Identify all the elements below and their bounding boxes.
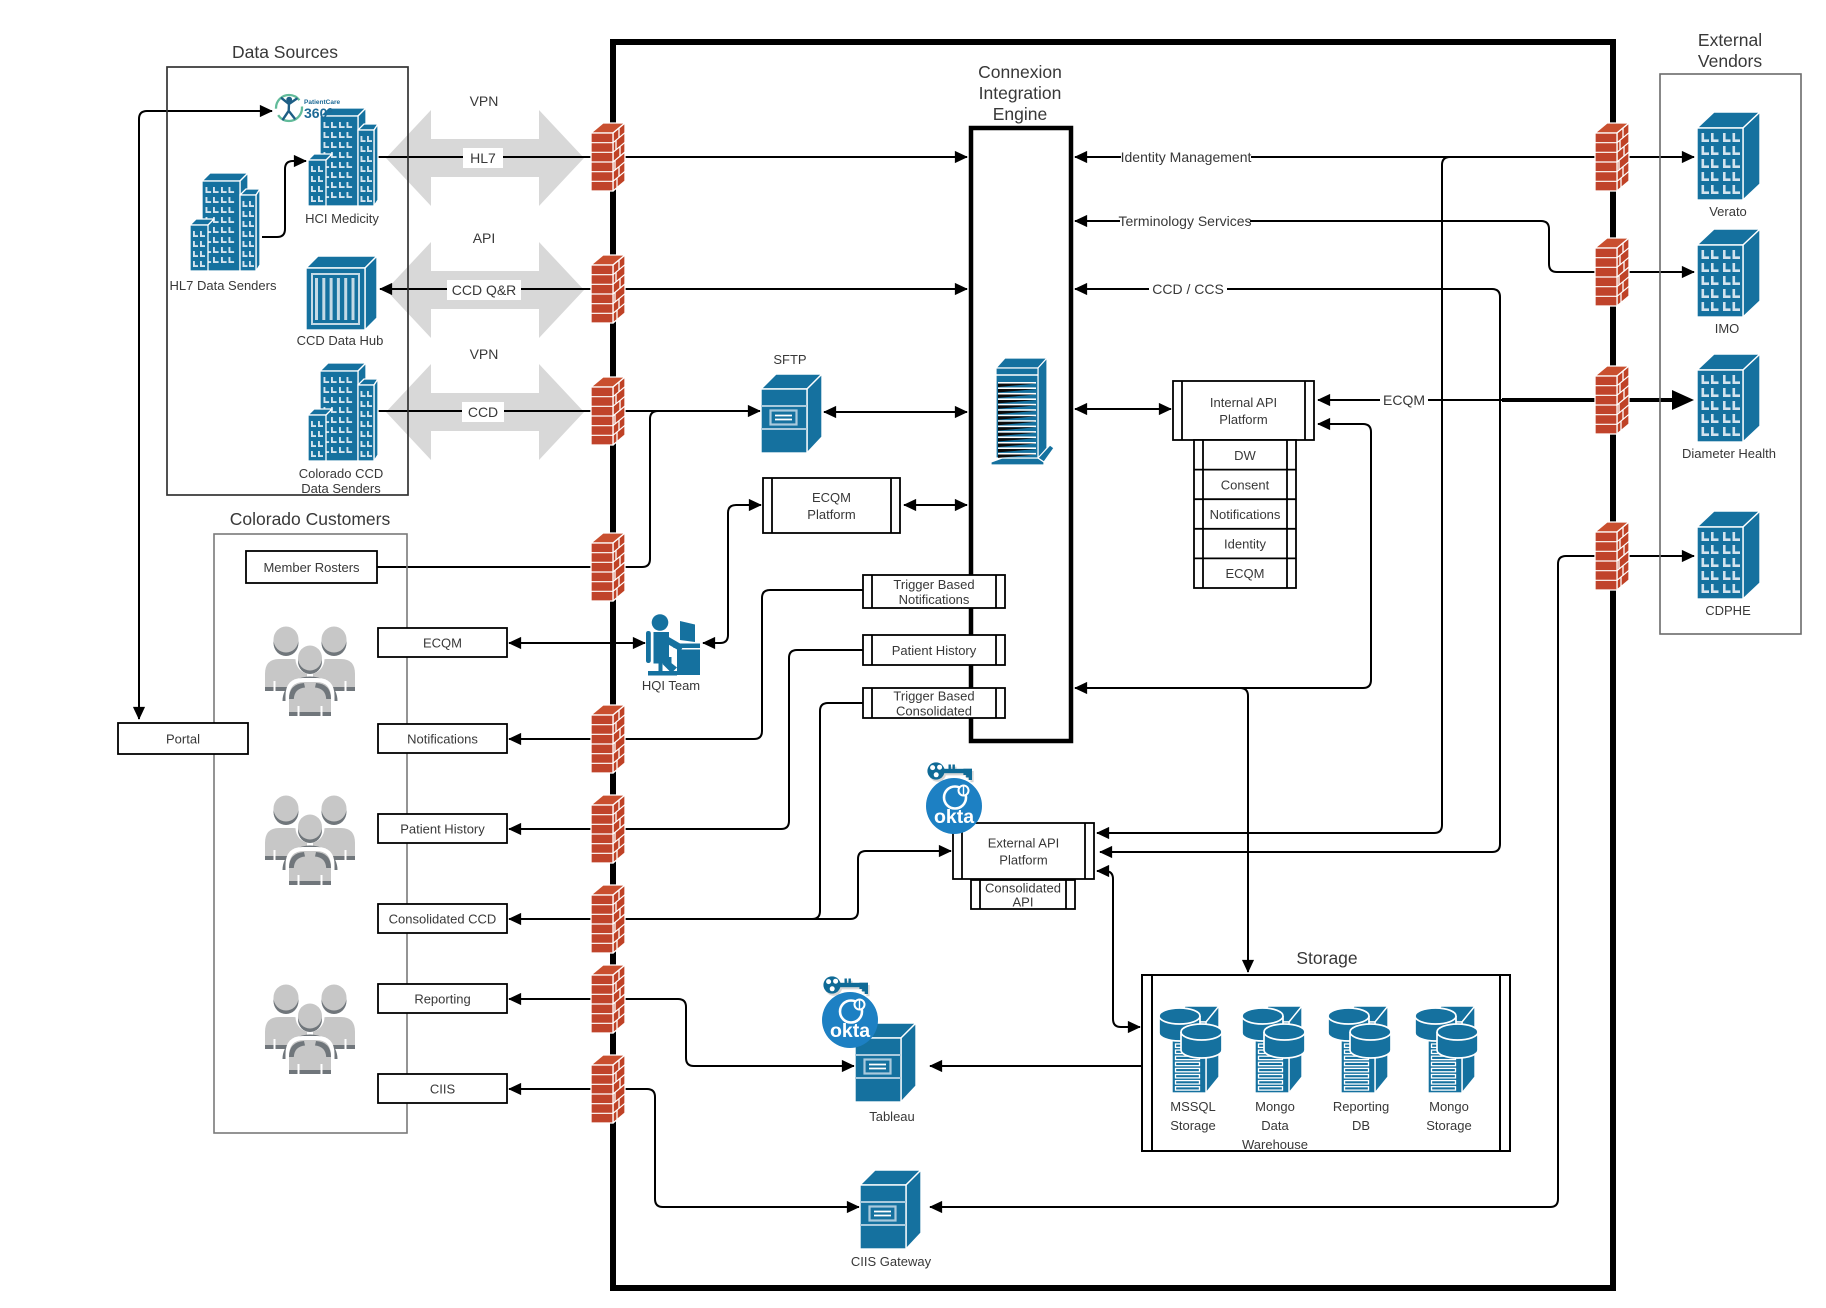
svg-text:Consolidated: Consolidated bbox=[985, 881, 1061, 896]
svg-text:Consolidated: Consolidated bbox=[896, 704, 972, 719]
label HL7 bbox=[463, 148, 503, 168]
svg-text:CCD Q&R: CCD Q&R bbox=[452, 282, 517, 298]
box CIIS bbox=[378, 1074, 507, 1103]
box Consolidated CCD bbox=[378, 904, 507, 933]
building HL7 Data Senders bbox=[190, 173, 260, 271]
SFTP server bbox=[761, 374, 822, 453]
svg-text:Identity Management: Identity Management bbox=[1121, 149, 1252, 165]
svg-text:Identity: Identity bbox=[1224, 537, 1266, 552]
svg-text:Trigger Based: Trigger Based bbox=[893, 577, 974, 592]
cube CDPHE bbox=[1697, 511, 1760, 599]
label Terminology Services bbox=[1120, 211, 1250, 231]
box Consolidated API bbox=[971, 880, 1075, 909]
External Vendors box bbox=[1660, 74, 1801, 634]
Storage box bbox=[1142, 975, 1510, 1151]
firewall left 7 bbox=[591, 885, 625, 953]
box Internal API stack (DW/Consent/Notifications/Identity/ECQM) bbox=[1194, 440, 1296, 588]
svg-text:DW: DW bbox=[1234, 448, 1256, 463]
svg-text:Member Rosters: Member Rosters bbox=[263, 560, 360, 575]
Data Sources box bbox=[167, 67, 408, 495]
box Notifications bbox=[378, 724, 507, 753]
firewall left 2 bbox=[591, 255, 625, 323]
wire Consolidated CCD line to External API Platform bbox=[511, 851, 951, 919]
wire Storage to Tableau bbox=[930, 1065, 1142, 1067]
CIIS Gateway server bbox=[860, 1170, 921, 1249]
cube Diameter Health bbox=[1697, 354, 1760, 442]
wire Terminology Services (engine to IMO) bbox=[1075, 221, 1694, 272]
wire HL7 (HCI Medicity to engine) bbox=[378, 156, 967, 158]
svg-text:Integration: Integration bbox=[979, 83, 1062, 103]
CCD Data Hub icon bbox=[306, 256, 377, 330]
Tableau server bbox=[855, 1023, 916, 1102]
svg-text:HCI Medicity: HCI Medicity bbox=[305, 211, 379, 226]
firewall left 1 bbox=[591, 123, 625, 191]
svg-text:IMO: IMO bbox=[1715, 321, 1740, 336]
firewall right 3 bbox=[1595, 366, 1629, 434]
wire HL7 Data Senders to HCI Medicity bbox=[262, 161, 306, 237]
svg-text:Reporting: Reporting bbox=[1333, 1099, 1389, 1114]
arrowhead ECQM thick into Diameter Health bbox=[1672, 390, 1694, 410]
building HCI Medicity bbox=[308, 108, 378, 206]
svg-text:ECQM: ECQM bbox=[1226, 566, 1265, 581]
firewall left 4 bbox=[591, 533, 625, 601]
firewall left 5 bbox=[591, 705, 625, 773]
wire Identity Management (engine to Verato) bbox=[1075, 156, 1694, 158]
svg-text:External API: External API bbox=[988, 836, 1060, 851]
PatientCare 360 logo bbox=[276, 95, 341, 121]
okta badge Tableau bbox=[822, 992, 878, 1048]
wire HQI Team to ECQM Platform bbox=[703, 505, 761, 643]
label CCD Q&R bbox=[447, 280, 521, 300]
box Trigger Based Consolidated bbox=[863, 688, 1005, 718]
svg-text:Diameter Health: Diameter Health bbox=[1682, 446, 1776, 461]
firewall right 1 bbox=[1595, 123, 1629, 191]
svg-text:Consent: Consent bbox=[1221, 477, 1270, 492]
engine rack server bbox=[991, 358, 1054, 465]
svg-text:CCD Data Hub: CCD Data Hub bbox=[297, 333, 384, 348]
box Trigger Based Notifications bbox=[863, 575, 1005, 608]
svg-text:Storage: Storage bbox=[1296, 948, 1357, 968]
svg-text:Portal: Portal bbox=[166, 732, 200, 747]
box Reporting bbox=[378, 984, 507, 1013]
svg-text:Engine: Engine bbox=[993, 104, 1048, 124]
svg-text:VPN: VPN bbox=[470, 93, 499, 109]
svg-text:Mongo: Mongo bbox=[1255, 1099, 1295, 1114]
svg-text:Patient History: Patient History bbox=[400, 822, 485, 837]
firewall right 4 bbox=[1595, 522, 1629, 590]
outer boundary box bbox=[613, 42, 1613, 1288]
wire Internal API Platform to engine upper bbox=[1075, 408, 1171, 410]
svg-text:Platform: Platform bbox=[1219, 412, 1267, 427]
svg-text:Colorado Customers: Colorado Customers bbox=[230, 509, 391, 529]
wire SFTP to engine bbox=[824, 411, 967, 413]
svg-text:360°: 360° bbox=[304, 105, 333, 121]
svg-text:Notifications: Notifications bbox=[407, 732, 478, 747]
Colorado Customers box bbox=[214, 534, 407, 1133]
svg-text:HL7: HL7 bbox=[470, 150, 496, 166]
svg-text:Data: Data bbox=[1261, 1118, 1289, 1133]
firewall left 6 bbox=[591, 795, 625, 863]
svg-text:Reporting: Reporting bbox=[414, 992, 470, 1007]
okta badge External API bbox=[926, 778, 982, 834]
label CCD bbox=[462, 402, 504, 422]
svg-text:External: External bbox=[1698, 30, 1762, 50]
wire CIIS Gateway to CDPHE bbox=[930, 556, 1694, 1207]
svg-text:MSSQL: MSSQL bbox=[1170, 1099, 1216, 1114]
svg-text:SFTP: SFTP bbox=[773, 352, 806, 367]
svg-text:Verato: Verato bbox=[1709, 204, 1747, 219]
box External API Platform bbox=[953, 823, 1094, 879]
wire Reporting box to Tableau bbox=[509, 999, 854, 1066]
svg-text:API: API bbox=[1013, 895, 1034, 910]
svg-text:HL7 Data Senders: HL7 Data Senders bbox=[170, 278, 277, 293]
svg-text:Patient History: Patient History bbox=[892, 643, 977, 658]
svg-text:HQI Team: HQI Team bbox=[642, 678, 700, 693]
svg-text:Storage: Storage bbox=[1426, 1118, 1472, 1133]
wire ECQM thin (Internal API Platform to Diameter Health) bbox=[1318, 399, 1502, 401]
box Member Rosters bbox=[246, 551, 377, 583]
svg-text:ECQM: ECQM bbox=[1383, 392, 1425, 408]
label Identity Management bbox=[1121, 147, 1251, 167]
okta key Tableau bbox=[823, 976, 869, 996]
box Portal bbox=[118, 723, 248, 754]
block arrow VPN/HL7 bbox=[386, 110, 584, 206]
svg-text:VPN: VPN bbox=[470, 346, 499, 362]
svg-text:Vendors: Vendors bbox=[1698, 51, 1762, 71]
building Colorado CCD Data Senders bbox=[308, 363, 378, 461]
svg-text:Warehouse: Warehouse bbox=[1242, 1137, 1308, 1152]
storage MSSQL Storage bbox=[1159, 1006, 1222, 1093]
box Patient History bbox=[378, 814, 507, 843]
svg-text:Mongo: Mongo bbox=[1429, 1099, 1469, 1114]
wire CCD (Colorado CCD senders to SFTP) bbox=[378, 410, 760, 412]
svg-text:Consolidated CCD: Consolidated CCD bbox=[389, 912, 497, 927]
people group 2 bbox=[265, 796, 355, 886]
svg-text:Trigger Based: Trigger Based bbox=[893, 689, 974, 704]
wire ECQM Platform to engine bbox=[904, 504, 967, 506]
box Internal API Platform bbox=[1173, 381, 1314, 440]
firewall left 3 bbox=[591, 377, 625, 445]
wire Member Rosters branch to SFTP bbox=[377, 411, 658, 567]
cube Verato bbox=[1697, 112, 1760, 200]
svg-text:Terminology Services: Terminology Services bbox=[1118, 213, 1251, 229]
storage Mongo Storage bbox=[1415, 1006, 1478, 1093]
wire CCD/CCS (engine to External API Platform) bbox=[1075, 289, 1500, 852]
HQI Team icon bbox=[646, 614, 700, 675]
box Patient History process bbox=[863, 635, 1005, 665]
people group 1 bbox=[265, 627, 355, 717]
svg-text:CIIS: CIIS bbox=[430, 1082, 456, 1097]
storage Mongo Data Warehouse bbox=[1242, 1006, 1305, 1093]
svg-text:Notifications: Notifications bbox=[899, 592, 970, 607]
svg-text:Colorado CCD: Colorado CCD bbox=[299, 466, 384, 481]
svg-text:DB: DB bbox=[1352, 1118, 1370, 1133]
wire Portal to PatientCare360 logo bbox=[139, 111, 272, 719]
wire Trigger Based Notifications to Notifications box bbox=[509, 590, 863, 739]
block arrow VPN/CCD bbox=[386, 364, 584, 460]
svg-text:CCD: CCD bbox=[468, 404, 498, 420]
box ECQM Platform bbox=[763, 478, 900, 533]
wire External API Platform to Storage bbox=[1097, 871, 1140, 1027]
svg-text:CDPHE: CDPHE bbox=[1705, 603, 1751, 618]
storage Reporting DB bbox=[1328, 1006, 1391, 1093]
wire CCD Q&R (CCD Data Hub to engine) bbox=[380, 288, 967, 290]
box ECQM bbox=[378, 628, 507, 657]
svg-text:Internal API: Internal API bbox=[1210, 395, 1277, 410]
svg-text:Connexion: Connexion bbox=[978, 62, 1062, 82]
svg-text:Platform: Platform bbox=[807, 507, 855, 522]
label ECQM bbox=[1380, 390, 1428, 410]
svg-text:Notifications: Notifications bbox=[1210, 507, 1281, 522]
svg-text:ECQM: ECQM bbox=[812, 490, 851, 505]
people group 3 bbox=[265, 985, 355, 1075]
svg-text:Data Sources: Data Sources bbox=[232, 42, 338, 62]
okta key External API bbox=[927, 762, 973, 782]
wire engine to Storage bbox=[1077, 688, 1248, 972]
svg-text:Storage: Storage bbox=[1170, 1118, 1216, 1133]
cube IMO bbox=[1697, 229, 1760, 317]
label CCD / CCS bbox=[1149, 279, 1227, 299]
svg-text:API: API bbox=[473, 230, 496, 246]
block arrow API/CCD Q&R bbox=[386, 242, 584, 338]
wire ECQM box to HQI Team bbox=[509, 642, 645, 644]
svg-text:CCD / CCS: CCD / CCS bbox=[1152, 281, 1224, 297]
wire Patient History small box to Patient History box bbox=[509, 650, 863, 829]
svg-text:ECQM: ECQM bbox=[423, 636, 462, 651]
svg-text:CIIS Gateway: CIIS Gateway bbox=[851, 1254, 932, 1269]
wire ECQM thick segment bbox=[1502, 398, 1674, 402]
firewall left 9 bbox=[591, 1055, 625, 1123]
firewall left 8 bbox=[591, 965, 625, 1033]
svg-text:Tableau: Tableau bbox=[869, 1109, 915, 1124]
svg-text:Platform: Platform bbox=[999, 853, 1047, 868]
wire CIIS box to CIIS Gateway bbox=[509, 1089, 859, 1207]
wire Trigger Based Consolidated to Consolidated CCD box bbox=[509, 703, 863, 919]
svg-text:Data Senders: Data Senders bbox=[301, 481, 381, 496]
Connexion Integration Engine box bbox=[971, 128, 1071, 741]
firewall right 2 bbox=[1595, 238, 1629, 306]
wire External API Platform to Identity line bbox=[1097, 157, 1450, 833]
wire Internal API Platform to engine lower bbox=[1075, 424, 1371, 688]
